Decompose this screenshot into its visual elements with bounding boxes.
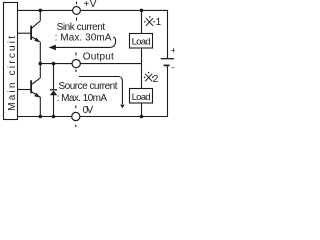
wire Q2 emitter vertical — [39, 97, 41, 117]
svg-text:Load: Load — [132, 36, 151, 47]
label reference mark 2 — [144, 72, 154, 81]
svg-text:: Max. 30mA: : Max. 30mA — [55, 32, 112, 43]
wire Q1 collector vertical — [39, 10, 41, 20]
transistor Q2 emitter arrowhead — [34, 93, 40, 98]
wire Q1 emitter vertical — [39, 42, 41, 64]
diode D1 — [50, 90, 57, 96]
load 2 — [130, 89, 153, 104]
wire top +V rail — [18, 10, 168, 58]
node junction bottom diode — [52, 115, 56, 119]
wire diode branch upper — [53, 64, 55, 90]
wire diode branch lower — [53, 95, 55, 117]
svg-text:1: 1 — [156, 17, 162, 28]
load 1 — [130, 34, 153, 49]
svg-text:Source current: Source current — [59, 81, 118, 92]
wire bottom 0V rail — [18, 65, 168, 116]
terminal Output — [72, 52, 80, 73]
svg-text:Load: Load — [132, 92, 151, 103]
svg-text:-: - — [171, 63, 174, 74]
sink current arrow — [49, 37, 116, 50]
svg-text:2: 2 — [153, 74, 159, 85]
svg-text:: Max. 10mA: : Max. 10mA — [57, 93, 108, 104]
battery — [161, 59, 174, 66]
transistor Q1 emitter arrowhead — [34, 38, 40, 43]
svg-text:0V: 0V — [83, 105, 94, 116]
svg-text:Output: Output — [83, 51, 114, 62]
node junction load top — [140, 9, 144, 13]
svg-text:Sink current: Sink current — [57, 22, 106, 33]
node junction output left — [39, 62, 43, 66]
node junction top — [39, 9, 43, 13]
node junction output diode — [52, 62, 56, 66]
node junction bottom Q2 — [39, 115, 43, 119]
wire load branch vertical lower — [141, 103, 143, 117]
terminal 0V — [72, 105, 80, 127]
transistor Q1 — [18, 21, 41, 42]
terminal +V — [73, 2, 81, 21]
main circuit box — [4, 3, 18, 120]
wire output line — [40, 63, 141, 65]
wire load branch vertical middle — [141, 48, 143, 89]
transistor Q2 — [18, 78, 41, 97]
wire load branch vertical upper — [141, 10, 143, 33]
source current arrow — [79, 77, 125, 109]
label reference mark 1 — [144, 16, 155, 26]
wire Q2 collector vertical — [39, 64, 41, 78]
svg-text:+V: +V — [83, 0, 96, 10]
svg-text:Main circuit: Main circuit — [7, 34, 18, 111]
svg-text:+: + — [171, 46, 175, 57]
node junction bottom load — [140, 115, 144, 119]
